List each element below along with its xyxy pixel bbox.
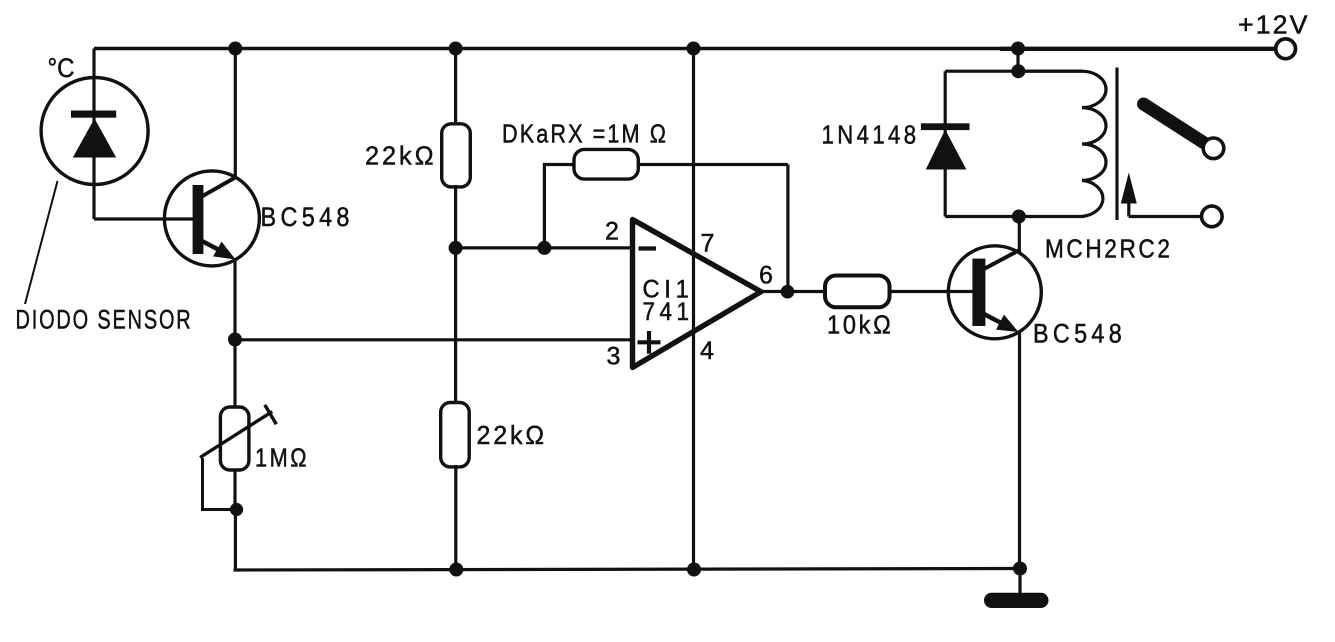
- relay lower contact terminal: [1202, 206, 1223, 227]
- svg-text:MCH2RC2: MCH2RC2: [1045, 234, 1173, 264]
- node: relay/collector bottom junction: [1012, 210, 1026, 224]
- resistor R1 22k body: [442, 124, 471, 187]
- wire bottom ground rail: [234, 569, 1021, 571]
- wire relay bottom horizontal: [945, 215, 1083, 218]
- node: feedback tap junction: [537, 241, 551, 255]
- svg-text:10kΩ: 10kΩ: [827, 310, 894, 340]
- wire op-amp pins 7/4 vertical: [692, 49, 695, 571]
- transistor Q1 emitter diagonal: [200, 240, 222, 252]
- wire rail to R1: [454, 49, 457, 127]
- leader line to DIODO SENSOR label: [25, 181, 58, 304]
- node: rail junction at op-amp pin 7 branch: [687, 42, 701, 56]
- wire op-amp output: [760, 290, 827, 293]
- svg-text:22kΩ: 22kΩ: [365, 141, 437, 171]
- wire R1 to divider node: [454, 185, 457, 405]
- relay switch blade: [1144, 104, 1204, 143]
- relay actuation arrowhead: [1121, 173, 1137, 204]
- node: rail junction at relay branch: [1011, 42, 1025, 56]
- node: bottom rail R2 junction: [449, 563, 463, 577]
- wire relay top horizontal: [945, 70, 1083, 73]
- relay actuation arrow stem: [1127, 192, 1130, 217]
- wire emitter node down to trimmer: [233, 340, 236, 510]
- diode D2 cathode bar: [921, 123, 970, 130]
- op-amp plus sign: [638, 331, 661, 354]
- wire Q2 emitter down to rail: [1018, 331, 1021, 569]
- diode sensor D1 circle: [41, 78, 148, 185]
- svg-text:BC548: BC548: [1033, 319, 1126, 349]
- resistor RX body (DKaRX): [574, 149, 638, 179]
- wire to ground symbol: [1018, 569, 1021, 595]
- wire R3 to Q2 base: [889, 290, 973, 293]
- transistor Q1 emitter arrowhead: [213, 242, 235, 260]
- trimmer P1 wiper diagonal: [200, 412, 272, 458]
- svg-text:+12V: +12V: [1238, 10, 1310, 40]
- transistor Q2 emitter arrowhead: [996, 315, 1019, 332]
- node: bottom rail emitter junction: [1013, 562, 1027, 576]
- wire feedback down to output: [786, 165, 789, 292]
- wire pin 3 input: [235, 338, 633, 341]
- node: bottom rail pin-4 junction: [687, 563, 701, 577]
- svg-text:3: 3: [607, 343, 621, 371]
- +12V terminal circle: [1276, 39, 1296, 59]
- wire relay lower contact: [1129, 215, 1201, 218]
- svg-text:22kΩ: 22kΩ: [477, 420, 548, 450]
- diode sensor triangle: [73, 119, 116, 158]
- transistor Q1 collector diagonal: [200, 177, 237, 198]
- wire rail to relay node: [1016, 49, 1019, 72]
- wire Q1 emitter down: [233, 259, 236, 340]
- wire R2 to bottom rail: [454, 465, 457, 571]
- wire from rail through sensor diode: [92, 49, 95, 220]
- resistor R2 22k body: [441, 403, 470, 467]
- node: relay/diode top junction: [1011, 64, 1025, 78]
- diode sensor cathode bar: [71, 111, 116, 118]
- transistor Q2 emitter diagonal: [982, 313, 1005, 325]
- node: divider junction: [449, 241, 463, 255]
- relay upper contact terminal: [1203, 138, 1224, 159]
- svg-text:6: 6: [759, 262, 773, 290]
- wire Q1 collector up to rail: [234, 49, 237, 179]
- node: output junction: [781, 285, 795, 299]
- wire feedback right segment: [636, 163, 788, 166]
- transistor Q1 base bar: [193, 185, 204, 254]
- wire +12V top rail: [94, 47, 1000, 51]
- op-amp U1 triangle: [633, 220, 762, 368]
- transistor Q2 circle: [948, 246, 1041, 339]
- ground symbol: [984, 593, 1049, 608]
- wire trimmer wiper hook: [203, 458, 232, 510]
- node: rail junction at 22k branch: [449, 42, 463, 56]
- wire pin 2 input: [456, 246, 633, 249]
- wire sensor to Q1 base: [94, 217, 193, 220]
- relay K1 armature bar: [1115, 68, 1118, 221]
- node: rail junction at sensor/Q1 branch: [228, 42, 242, 56]
- svg-text:DIODO SENSOR: DIODO SENSOR: [16, 305, 193, 335]
- trimmer P1 body: [220, 407, 249, 470]
- node: emitter / pin-3 junction: [228, 333, 242, 347]
- op-amp minus sign: [639, 246, 657, 250]
- svg-text:1MΩ: 1MΩ: [255, 443, 309, 473]
- wire trimmer to bottom rail: [234, 510, 237, 571]
- wire Q2 collector up to relay: [1018, 217, 1021, 252]
- svg-text:2: 2: [605, 218, 619, 246]
- svg-text:DKaRX =1M Ω: DKaRX =1M Ω: [502, 119, 668, 149]
- trimmer P1 wiper T-bar: [265, 405, 277, 424]
- transistor Q2 collector diagonal: [982, 250, 1021, 271]
- relay K1 coil: [1018, 71, 1106, 216]
- wire feedback up from tap: [544, 165, 576, 248]
- diode D2 1N4148 vertical lead: [944, 71, 947, 216]
- node: trimmer wiper junction: [230, 503, 243, 516]
- svg-text:7: 7: [701, 230, 715, 258]
- svg-text:BC548: BC548: [261, 202, 354, 232]
- svg-text:°C: °C: [48, 53, 75, 83]
- svg-text:741: 741: [643, 298, 694, 326]
- resistor R3 10k body: [825, 276, 890, 308]
- transistor Q1 circle: [164, 171, 259, 266]
- svg-text:4: 4: [700, 337, 714, 365]
- transistor Q2 base bar: [972, 259, 985, 326]
- diode D2 triangle: [926, 130, 967, 170]
- svg-text:1N4148: 1N4148: [822, 120, 920, 150]
